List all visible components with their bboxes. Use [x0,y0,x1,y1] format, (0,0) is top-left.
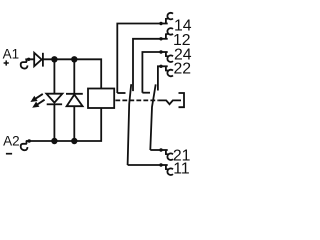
wire D2 branch [73,59,75,141]
terminal A2 clamp [26,140,29,142]
LED D3 [46,94,62,103]
wire A2 rail [29,108,101,141]
node terminal 11 dot [159,163,162,166]
svg-text:22: 22 [174,60,192,77]
relay coil K1 [88,89,114,109]
terminal 12 clamp [161,38,168,40]
terminal 21 clamp [161,149,168,151]
wire terminal 12 [133,39,161,91]
svg-text:11: 11 [173,161,190,178]
diode D2 [66,93,83,95]
contact 2 NO seat tick [142,92,150,94]
node D2 top junction dot [71,56,77,62]
mechanical link dashed line [115,99,158,101]
node A2 terminal dot [28,139,31,142]
node terminal 22 dot [159,65,162,68]
terminal 14 clamp [161,23,168,25]
node D2 bottom junction dot [71,138,77,144]
mechanical link end bracket [179,93,185,107]
contact 1 NO seat tick [117,92,125,94]
terminal 24 clamp [161,51,168,53]
svg-text:A1: A1 [3,47,20,62]
wire terminal 11 [128,164,161,166]
wire terminal 22 [158,66,161,90]
node LED bottom junction dot [51,138,57,144]
node terminal 12 dot [159,37,162,40]
node terminal 24 dot [159,50,162,53]
mechanical link solid segment with notch [158,100,181,104]
wire terminal 21 [150,149,161,151]
node terminal 21 dot [159,148,162,151]
terminal A1 clamp [25,58,28,60]
node terminal 14 dot [159,22,162,25]
wire terminal 14 [117,24,161,94]
contact 1 lever [128,84,132,165]
LED arrow 1 [32,94,43,101]
terminal 11 clamp [161,164,168,166]
node LED top junction dot [51,56,57,62]
diode D1 [34,53,41,66]
wire terminal 24 [142,52,161,93]
contact 2 lever [150,84,155,150]
label - [6,153,12,155]
wire LED branch [53,59,55,141]
wire A1 rail [29,59,102,88]
terminal 22 clamp [161,65,168,67]
LED arrow 2 [33,100,44,107]
label + [4,60,9,65]
node A1 terminal dot [27,58,30,61]
svg-text:A2: A2 [3,133,20,148]
